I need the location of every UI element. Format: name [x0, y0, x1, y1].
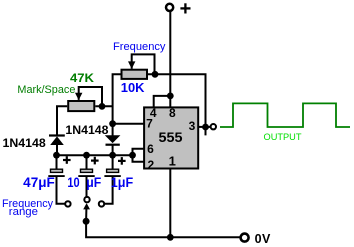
svg-text:0: 0: [255, 232, 262, 246]
svg-text:47μF: 47μF: [23, 175, 55, 190]
svg-text:OUTPUT: OUTPUT: [264, 132, 302, 143]
svg-text:2: 2: [147, 158, 154, 172]
svg-text:Frequency: Frequency: [113, 41, 166, 53]
svg-text:1N4148: 1N4148: [65, 123, 108, 137]
svg-text:1μF: 1μF: [111, 175, 133, 190]
svg-text:6: 6: [147, 142, 154, 156]
svg-text:1: 1: [169, 153, 176, 168]
svg-text:Mark/Space: Mark/Space: [17, 84, 75, 96]
svg-text:555: 555: [159, 129, 183, 145]
svg-text:10: 10: [67, 175, 79, 190]
svg-text:range: range: [9, 206, 38, 218]
svg-text:μF: μF: [86, 175, 101, 190]
svg-text:V: V: [262, 232, 271, 246]
svg-text:3: 3: [189, 119, 196, 133]
svg-text:7: 7: [146, 117, 153, 131]
svg-text:10K: 10K: [121, 80, 145, 95]
svg-text:1N4148: 1N4148: [3, 136, 47, 150]
svg-text:8: 8: [169, 106, 176, 120]
